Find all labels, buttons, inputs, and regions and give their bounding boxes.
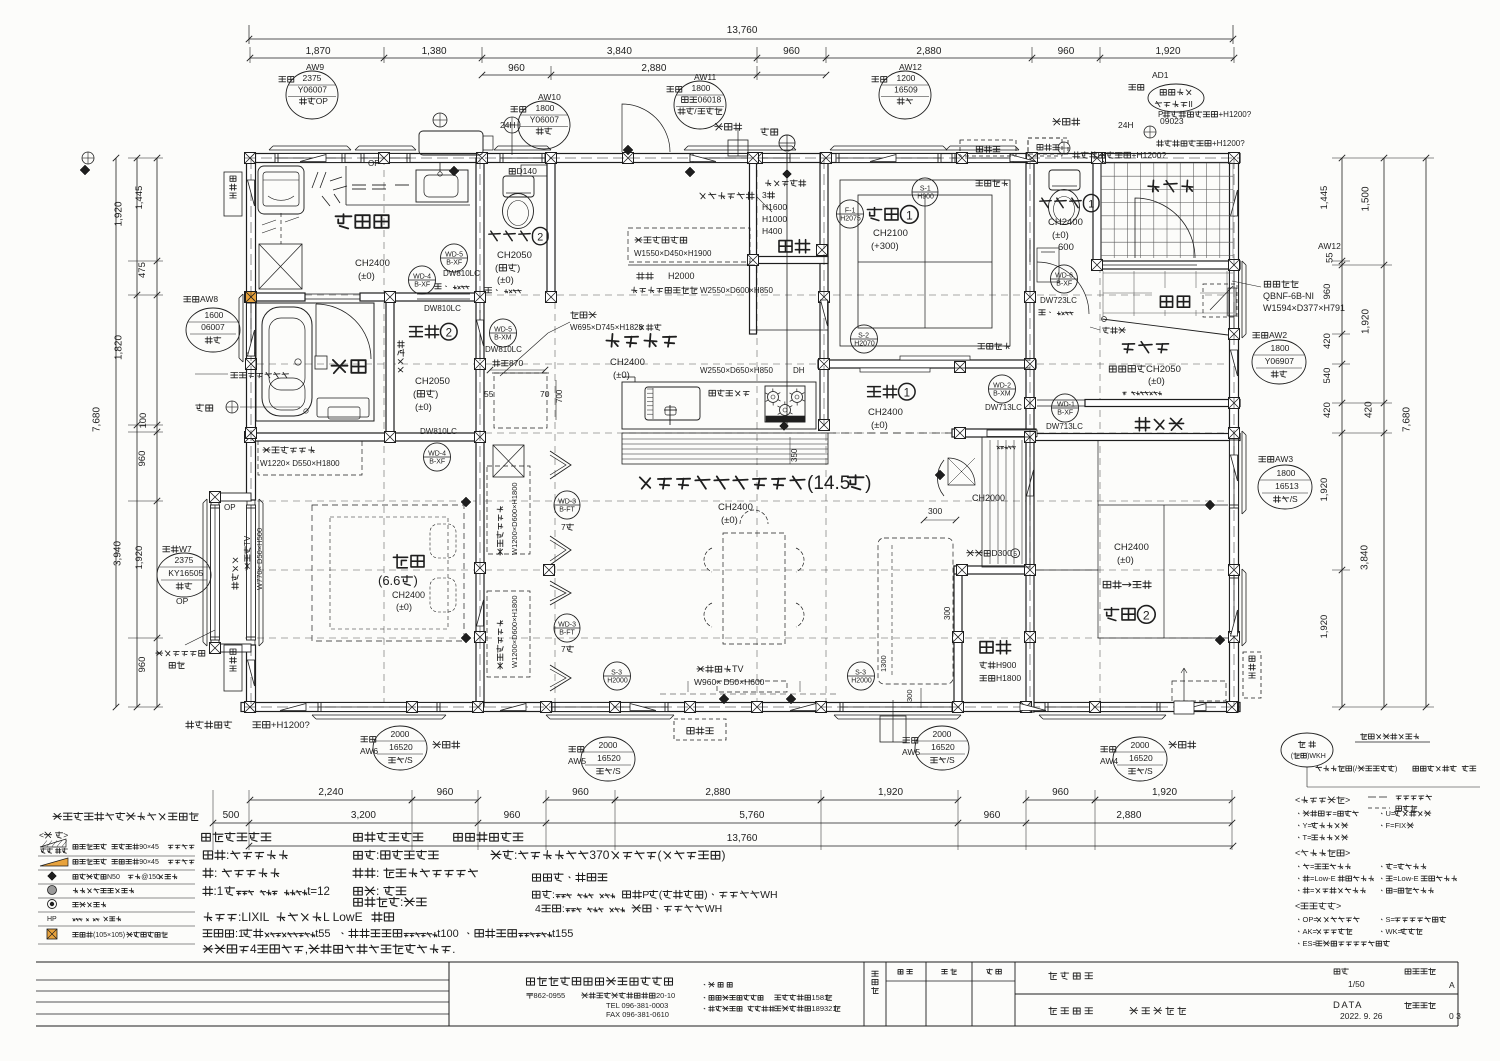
title block frame — [36, 961, 1458, 963]
svg-text:DW810LC: DW810LC — [443, 269, 480, 278]
svg-text:420: 420 — [1364, 401, 1375, 418]
annotation kyuukiko top center — [715, 123, 742, 130]
svg-text:AW5: AW5 — [568, 756, 586, 766]
annotation kamoidome bottom — [978, 343, 1010, 350]
svg-text:B-FT: B-FT — [559, 506, 575, 513]
svg-text:): ) — [517, 263, 520, 274]
svg-text:DW810LC: DW810LC — [485, 345, 522, 354]
wall porch bottom / genkan top y258 — [1093, 261, 1240, 269]
svg-text:H2075: H2075 — [840, 215, 861, 222]
svg-text:TEL 096-381-0003: TEL 096-381-0003 — [606, 1001, 668, 1010]
svg-text:420: 420 — [1322, 333, 1333, 349]
svg-text:700: 700 — [555, 389, 564, 403]
dining chairs — [704, 548, 712, 572]
label S-1 — [912, 178, 938, 206]
room outdoor unit left bottom — [224, 645, 242, 691]
wall exterior bottom — [241, 703, 1240, 712]
svg-text:=: = — [1310, 862, 1315, 871]
legend row2 new brace — [40, 858, 68, 866]
svg-text:0 3: 0 3 — [1449, 1011, 1461, 1021]
wall bath right x390 — [386, 293, 394, 437]
svg-text:): ) — [414, 573, 418, 588]
window AW3 right — [1230, 437, 1239, 508]
dining table dashed — [723, 533, 785, 644]
svg-text:W695×D745×H1828: W695×D745×H1828 — [570, 323, 643, 332]
svg-text:350: 350 — [790, 448, 799, 462]
svg-text::: : — [226, 848, 229, 862]
window AW5 bottom LD right — [840, 703, 955, 712]
wall centerline dashes — [245, 157, 1240, 159]
annotation 350 vertical — [790, 448, 799, 462]
structural plywood diamonds — [449, 166, 459, 176]
svg-text:CH2050: CH2050 — [497, 250, 532, 261]
svg-text:1,445: 1,445 — [1319, 186, 1330, 210]
kitchen back door arc top — [622, 104, 670, 152]
sliding door lines in wall gaps — [305, 293, 360, 295]
svg-text:2: 2 — [537, 232, 543, 244]
svg-text:2375: 2375 — [175, 555, 194, 565]
new post orange — [246, 292, 257, 303]
svg-text:H2000: H2000 — [607, 677, 628, 684]
svg-text:1: 1 — [1088, 199, 1094, 211]
window stack AW5 bottom-left — [569, 747, 584, 753]
window AW8 left bath — [247, 300, 256, 356]
svg-text:+H1200?: +H1200? — [1212, 139, 1245, 148]
svg-text:WK=: WK= — [1386, 927, 1403, 936]
annotation existing tansu vertical 2 — [497, 621, 503, 670]
svg-text:1,820: 1,820 — [114, 335, 125, 360]
annotation tategamori — [1103, 327, 1126, 333]
room label bath — [332, 360, 366, 373]
bath unit frame — [256, 303, 374, 421]
svg-text:Y=: Y= — [1303, 821, 1313, 830]
svg-text:DW810LC: DW810LC — [420, 427, 457, 436]
svg-text:QBNF-6B-NI: QBNF-6B-NI — [1263, 291, 1314, 301]
annotation koshikabe kitchen — [628, 264, 755, 266]
svg-text:(: ( — [658, 848, 662, 862]
svg-text:1/50: 1/50 — [1348, 979, 1365, 989]
svg-text:AW12: AW12 — [1318, 241, 1341, 251]
window left bay W7 — [247, 505, 256, 640]
svg-text:7: 7 — [561, 644, 566, 654]
svg-text:): ) — [865, 473, 871, 494]
svg-text:OP=: OP= — [1303, 915, 1319, 924]
room label genkan — [1152, 288, 1200, 310]
svg-text:(±0): (±0) — [1117, 555, 1134, 566]
svg-text:1,920: 1,920 — [878, 787, 903, 798]
svg-text:HP: HP — [47, 916, 57, 923]
svg-text:<: < — [39, 830, 44, 840]
svg-text:1800: 1800 — [1277, 468, 1296, 478]
bath door swing arc — [315, 304, 317, 356]
svg-text:Y06007: Y06007 — [530, 115, 560, 125]
svg-text:H2000: H2000 — [851, 677, 872, 684]
svg-text:500: 500 — [223, 810, 240, 821]
svg-text:06007: 06007 — [201, 322, 225, 332]
svg-text:TV: TV — [243, 535, 252, 546]
svg-text:CH2100: CH2100 — [873, 228, 908, 239]
wall corridor2/LD vertical x480 — [476, 158, 484, 707]
svg-text::: : — [562, 903, 565, 915]
bed dashed — [312, 505, 464, 641]
annotation mortar check — [156, 651, 205, 657]
svg-text:960: 960 — [1322, 284, 1333, 300]
room label hall — [1123, 342, 1169, 353]
room label datsui — [336, 214, 389, 228]
legend row1 existing brace — [40, 839, 66, 847]
svg-text:)WKH: )WKH — [1307, 753, 1326, 760]
svg-text:=Low-E: =Low-E — [1393, 874, 1419, 883]
svg-text:06018: 06018 — [698, 95, 722, 105]
svg-text:DW713LC: DW713LC — [1046, 422, 1083, 431]
svg-text:CH2050: CH2050 — [1146, 364, 1181, 375]
svg-text:S-3: S-3 — [855, 670, 866, 677]
svg-text:(14.5: (14.5 — [807, 473, 850, 494]
window AW9 top (datsui) — [275, 154, 345, 163]
annotation kamoidome top — [976, 180, 1008, 187]
svg-text:WD-3: WD-3 — [558, 622, 576, 629]
wall exterior right — [1230, 153, 1239, 712]
svg-text::: : — [376, 866, 379, 880]
svg-text:AW9: AW9 — [306, 62, 324, 72]
svg-text:H400: H400 — [762, 226, 783, 236]
svg-text:960: 960 — [137, 451, 148, 467]
svg-text:=: = — [1310, 886, 1315, 895]
wall oshiire top-left of washitsu1 — [750, 153, 757, 334]
entry door sliding lines — [1103, 264, 1197, 266]
svg-text:): ) — [435, 389, 438, 400]
svg-text:+H1200?: +H1200? — [1219, 110, 1252, 119]
svg-text:B-XF: B-XF — [1057, 409, 1073, 416]
svg-text:(6.6: (6.6 — [378, 573, 400, 588]
svg-text:AW2: AW2 — [1269, 330, 1287, 340]
dimension left tier outer 7,680 — [115, 158, 117, 707]
svg-text:F-1: F-1 — [845, 208, 856, 215]
svg-text:S=: S= — [1386, 915, 1396, 924]
svg-text:DH: DH — [793, 366, 805, 375]
room label oshiire washitsu1 — [779, 240, 810, 253]
svg-text:P: P — [1158, 110, 1163, 119]
window stack AW5 bottom-right — [903, 738, 918, 744]
wall toilet2 right x551 — [547, 153, 555, 297]
svg-text:3,840: 3,840 — [1359, 545, 1370, 570]
svg-text:AW3: AW3 — [1275, 454, 1293, 464]
annotation existing cupboard — [628, 228, 750, 262]
svg-text:1: 1 — [906, 209, 913, 223]
svg-text:A: A — [1449, 980, 1455, 990]
wall washitsu1 bottom y364 — [818, 360, 1036, 368]
svg-text:WH: WH — [705, 903, 723, 915]
label S-3 right — [848, 662, 875, 690]
svg-text:1,920: 1,920 — [1361, 309, 1372, 334]
room label porch — [1148, 180, 1193, 191]
svg-text:II: II — [1188, 99, 1193, 109]
existing tansu bedroom dashed — [258, 441, 362, 475]
svg-text:W2550×D600×H850: W2550×D600×H850 — [700, 286, 773, 295]
title block name rows — [1015, 993, 1458, 995]
datsui counter — [346, 204, 470, 206]
annotation no dishwasher — [709, 390, 749, 396]
svg-text:N50: N50 — [107, 874, 120, 881]
wall exterior left — [247, 153, 256, 500]
svg-text:1,870: 1,870 — [306, 46, 331, 57]
door WD-6 hall arc — [1037, 262, 1089, 314]
counter shelf vertical lines — [982, 437, 1030, 567]
svg-text:/S: /S — [1290, 494, 1298, 504]
svg-text:WD-5: WD-5 — [494, 327, 512, 334]
dimension top tier3 — [482, 74, 826, 76]
corridor2 door arcs — [308, 247, 358, 297]
svg-text:T=: T= — [1303, 833, 1313, 842]
svg-text:1,920: 1,920 — [1152, 787, 1177, 798]
svg-text:960: 960 — [572, 787, 589, 798]
title block check columns — [925, 962, 927, 1026]
svg-text:16520: 16520 — [1129, 753, 1153, 763]
pillows — [430, 524, 456, 558]
fridge niche dashed — [494, 373, 547, 428]
svg-text:1,920: 1,920 — [1319, 615, 1330, 639]
dimension bottom tierB — [213, 822, 1232, 824]
dimension left tier3 — [156, 158, 158, 707]
svg-text:3: 3 — [762, 190, 767, 200]
svg-text:2022. 9. 26: 2022. 9. 26 — [1340, 1011, 1383, 1021]
svg-text::: : — [376, 848, 379, 862]
window OP top — [361, 154, 410, 163]
svg-text:4: 4 — [535, 903, 541, 915]
label WD-4 B-XF upper — [409, 266, 436, 294]
svg-text:16513: 16513 — [1275, 481, 1299, 491]
svg-text:AW10: AW10 — [538, 92, 561, 102]
equip toilet2 top 24H fan — [504, 117, 520, 133]
svg-text:475: 475 — [137, 262, 148, 278]
washitsu2 tatami lines — [1097, 441, 1099, 638]
svg-text:S-1: S-1 — [920, 186, 931, 193]
svg-text:90×45: 90×45 — [139, 859, 159, 866]
svg-text:AW11: AW11 — [694, 72, 716, 82]
svg-text:24H: 24H — [500, 120, 516, 130]
svg-text:W1200×D600×H1800: W1200×D600×H1800 — [510, 482, 519, 555]
svg-text:3,840: 3,840 — [607, 46, 632, 57]
legend row7 new post — [47, 929, 57, 939]
svg-text:B-XF: B-XF — [1056, 280, 1072, 287]
svg-text:5,760: 5,760 — [739, 810, 764, 821]
svg-text:ES=: ES= — [1303, 939, 1318, 948]
svg-text:D140: D140 — [517, 166, 538, 176]
svg-text:(±0): (±0) — [613, 370, 630, 381]
svg-text:=: = — [1393, 862, 1398, 871]
svg-text:AD1: AD1 — [1152, 70, 1169, 80]
svg-text:<: < — [1295, 901, 1300, 911]
svg-text:@150: @150 — [141, 874, 160, 881]
label S-3 left — [604, 662, 631, 690]
svg-text:<: < — [1295, 848, 1300, 858]
svg-text:20-10: 20-10 — [656, 991, 675, 1000]
svg-text:CH2400: CH2400 — [355, 258, 390, 269]
svg-text:2375: 2375 — [303, 73, 322, 83]
room label oshiire2 — [980, 641, 1011, 654]
svg-text:1300: 1300 — [879, 655, 888, 672]
svg-text:OP: OP — [224, 503, 236, 512]
bathtub — [262, 307, 312, 416]
svg-text:CH2400: CH2400 — [1114, 542, 1149, 553]
annotation gaibu heki suisen bottom-left — [186, 721, 232, 728]
label WD-4 B-XF lower — [424, 443, 451, 471]
svg-text:2,880: 2,880 — [916, 46, 941, 57]
annotation magnet wall — [700, 192, 754, 199]
indoor outdoor-unit space dashed washitsu2 — [1172, 681, 1226, 701]
svg-text:>: > — [1345, 795, 1350, 805]
svg-text:WD-2: WD-2 — [993, 383, 1011, 390]
svg-text:>: > — [63, 830, 68, 840]
kyuukiko vent top — [728, 140, 748, 156]
svg-text:=: = — [1393, 886, 1398, 895]
svg-text:55: 55 — [1325, 252, 1336, 263]
svg-text:1800: 1800 — [1271, 343, 1290, 353]
genkan tile hatch — [1102, 271, 1104, 316]
svg-text:4: 4 — [250, 942, 257, 956]
title block company — [527, 977, 673, 986]
svg-text:960: 960 — [137, 657, 148, 673]
svg-text:(105×105): (105×105) — [93, 932, 125, 939]
hydrant symbols — [1144, 126, 1156, 138]
annotation kanter corridor1 — [997, 446, 1016, 449]
label WD-1 B-XF — [1052, 394, 1079, 422]
wall kitchen right / washitsu1 left x824 — [820, 153, 828, 430]
svg-text:100: 100 — [138, 413, 149, 429]
svg-text:AK=: AK= — [1303, 927, 1318, 936]
svg-text:2,880: 2,880 — [641, 63, 666, 74]
label WD-2 B-XM — [989, 375, 1016, 403]
wall tokonoma bottom y437 — [1030, 434, 1240, 441]
svg-text:16520: 16520 — [597, 753, 621, 763]
svg-text:960: 960 — [1052, 787, 1069, 798]
svg-text:=: = — [1333, 809, 1338, 818]
svg-text:WD-4: WD-4 — [413, 274, 431, 281]
window top kitchen AW11 — [690, 154, 790, 163]
existing tansu LD wall dashed x2 — [487, 466, 530, 554]
svg-text:t100: t100 — [437, 928, 458, 940]
svg-text:B-XF: B-XF — [414, 281, 430, 288]
wall between datsui/bath and corridor2 horizontal y297 — [245, 293, 305, 301]
room outdoor unit left top — [224, 172, 242, 216]
svg-text:(±0): (±0) — [1148, 376, 1165, 387]
svg-text:1200: 1200 — [897, 73, 916, 83]
wall washitsu2 left x1030 — [1026, 403, 1034, 712]
svg-text:2,240: 2,240 — [318, 787, 343, 798]
svg-text:+H1200?: +H1200? — [271, 720, 310, 731]
floor access X square — [259, 244, 302, 289]
porch tile hatch — [1100, 163, 1102, 258]
dimension top tier2 — [250, 57, 1234, 59]
svg-text:(±0): (±0) — [396, 602, 412, 612]
annotation mekakushi louver — [231, 372, 289, 377]
room label tokonoma — [1135, 418, 1183, 431]
svg-text:OP: OP — [368, 159, 380, 168]
svg-text:1800: 1800 — [536, 103, 555, 113]
svg-text:AW6: AW6 — [360, 746, 378, 756]
spec header equipment — [454, 832, 523, 841]
svg-text:300: 300 — [928, 506, 942, 516]
svg-text:FAX 096-381-0610: FAX 096-381-0610 — [606, 1010, 669, 1019]
svg-text:KY16505: KY16505 — [168, 568, 203, 578]
svg-text:1,445: 1,445 — [134, 186, 145, 210]
svg-text:960: 960 — [504, 810, 521, 821]
svg-text:OP: OP — [176, 596, 189, 606]
brace marks — [300, 155, 326, 162]
washitsu1 sliding doors bottom — [830, 359, 1030, 361]
svg-text:CH2050: CH2050 — [415, 376, 450, 387]
svg-text:F=FIX: F=FIX — [1386, 821, 1407, 830]
svg-text:189321: 189321 — [812, 1004, 837, 1013]
svg-text:1581: 1581 — [812, 993, 829, 1002]
svg-text::: : — [214, 866, 217, 880]
window AW6 bottom bedroom — [318, 703, 440, 712]
annotation existing tansu vertical 1 — [497, 507, 503, 556]
svg-text:420: 420 — [1322, 402, 1333, 418]
svg-text:CH2400: CH2400 — [392, 590, 425, 600]
title block scale — [1334, 968, 1348, 974]
label S-2 — [851, 325, 878, 353]
window AW4 bottom washitsu2 — [1045, 703, 1160, 712]
label F-1 — [837, 200, 864, 228]
annotation kyokusho top — [761, 128, 778, 135]
svg-text:960: 960 — [783, 46, 800, 57]
svg-text:7: 7 — [561, 522, 566, 532]
svg-text:(±0): (±0) — [721, 515, 738, 526]
svg-text:,: , — [305, 942, 308, 956]
annotation 300 vertical right — [943, 606, 952, 620]
dimension top tier1 total 13,760 — [249, 38, 1233, 40]
svg-text:1,380: 1,380 — [422, 46, 447, 57]
svg-text:370: 370 — [589, 848, 609, 862]
svg-text::: : — [514, 848, 517, 862]
svg-text:U=: U= — [1386, 809, 1396, 818]
svg-text:DATA: DATA — [1333, 1000, 1363, 1011]
svg-text:300: 300 — [905, 689, 914, 702]
bath door handle niche — [315, 356, 327, 369]
svg-text:<: < — [1295, 795, 1300, 805]
toilet 1 fixture — [1049, 170, 1080, 190]
window AW12 top washitsu1 a — [836, 154, 941, 163]
svg-text:CH2000: CH2000 — [972, 493, 1005, 503]
svg-text:(±0): (±0) — [358, 271, 375, 282]
svg-text:.: . — [452, 942, 455, 956]
svg-text:H2000: H2000 — [668, 271, 695, 281]
svg-text:B-XF: B-XF — [446, 259, 462, 266]
svg-text:7,680: 7,680 — [91, 407, 102, 432]
svg-text:16509: 16509 — [894, 85, 918, 95]
svg-text:3,200: 3,200 — [351, 810, 376, 821]
svg-text::: : — [400, 895, 403, 909]
annotation 1300? vertical near 893 — [879, 655, 888, 672]
svg-text::: : — [552, 889, 555, 901]
svg-text:1: 1 — [904, 388, 910, 400]
svg-text:70: 70 — [540, 389, 550, 399]
svg-text:/S: /S — [947, 755, 955, 765]
svg-text:1,920: 1,920 — [1319, 478, 1330, 502]
module grid dashed lines — [383, 158, 385, 707]
svg-text:AW4: AW4 — [1100, 756, 1118, 766]
svg-text:CH2400: CH2400 — [868, 407, 903, 418]
svg-text:WD-4: WD-4 — [428, 451, 446, 458]
genkan agarikamachi slant line — [1102, 319, 1228, 335]
wall corridor1 south y433 — [952, 429, 1036, 437]
svg-text:1,920: 1,920 — [114, 201, 125, 226]
svg-text:CH2400: CH2400 — [1048, 217, 1083, 228]
svg-text:B-XF: B-XF — [429, 458, 445, 465]
svg-text:WD-3: WD-3 — [558, 499, 576, 506]
spec header interior — [202, 832, 271, 841]
